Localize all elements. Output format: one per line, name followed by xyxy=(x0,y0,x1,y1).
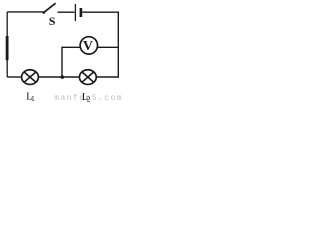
lamp L2 xyxy=(79,70,96,85)
battery positive plate (long) xyxy=(74,4,76,21)
wire top-left segment xyxy=(7,11,43,13)
svg-text:L1: L1 xyxy=(26,91,35,103)
junction node xyxy=(61,75,65,79)
voltmeter V xyxy=(80,37,97,55)
battery negative plate (short) xyxy=(80,8,83,17)
wire voltmeter to right rail xyxy=(98,46,118,48)
wire right rail xyxy=(117,12,119,78)
wire battery to top-right corner xyxy=(82,11,119,13)
wire left rail thick segment xyxy=(6,36,9,60)
svg-text:V: V xyxy=(83,39,93,54)
wire bottom-left segment xyxy=(7,76,21,78)
wire bottom-middle segment xyxy=(39,76,79,78)
svg-text:S: S xyxy=(49,14,56,28)
wire left rail xyxy=(6,12,8,77)
wire bottom-right segment xyxy=(97,76,119,78)
wire switch to battery xyxy=(58,11,75,13)
lamp L1 xyxy=(22,70,39,85)
wire voltmeter branch riser xyxy=(61,47,63,77)
switch S contact dot xyxy=(43,11,46,14)
wire voltmeter branch left xyxy=(62,46,80,48)
svg-text:L2: L2 xyxy=(82,92,91,103)
switch S blade xyxy=(44,3,56,13)
